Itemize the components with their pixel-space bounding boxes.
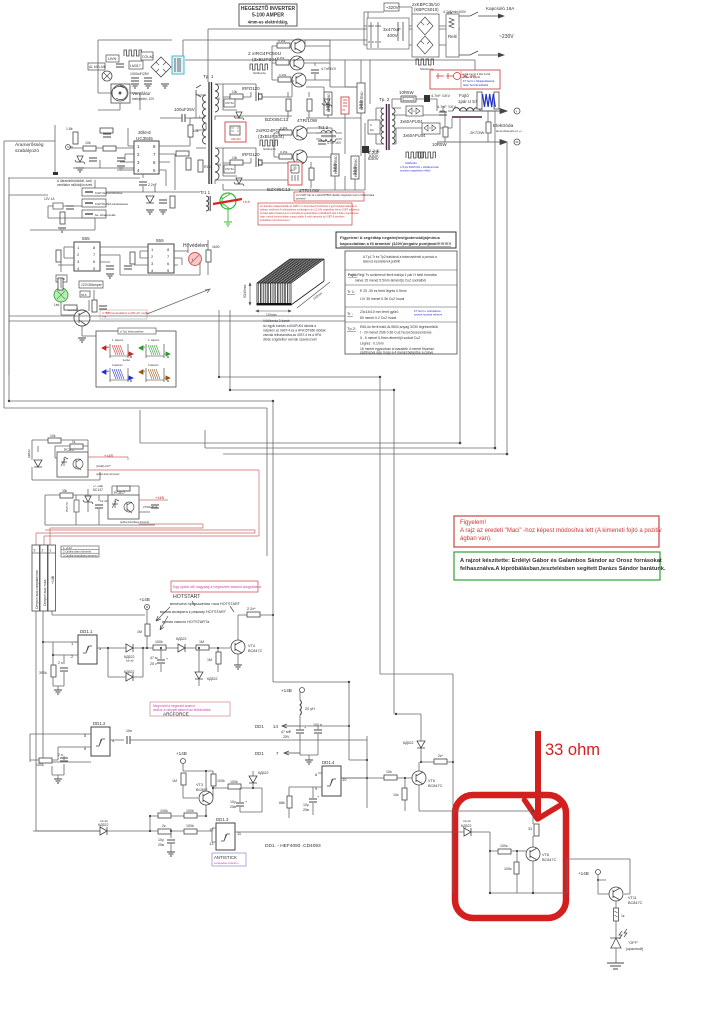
ARCFORCE pink label bbox=[150, 702, 230, 717]
waveform box bbox=[96, 328, 176, 387]
IRFD120 upper bbox=[242, 86, 263, 101]
winding diagram red bbox=[102, 338, 133, 362]
svg-text:25в: 25в bbox=[158, 843, 164, 847]
DD1 14 arrow bbox=[255, 724, 300, 729]
1M resistor h bbox=[196, 640, 209, 650]
svg-text:II - 6 menet 5.5mm átmérőj: II - 6 menet 5.5mm átmérőjű sodrat CuZ bbox=[360, 336, 420, 340]
winding info table bbox=[345, 251, 457, 355]
100k resistor bbox=[153, 640, 166, 650]
10k vert resistor vt6 bbox=[393, 778, 407, 811]
svg-text:1М: 1М bbox=[172, 779, 177, 783]
resistor 10k lower bbox=[230, 160, 243, 165]
svg-text:HFA15TB60: HFA15TB60 bbox=[327, 93, 331, 112]
cap 4.7nF tr12 bbox=[318, 141, 326, 144]
transistor Q-mid1 bbox=[293, 126, 307, 140]
svg-text:BZX85C13: BZX85C13 bbox=[265, 117, 289, 123]
svg-text:10k: 10k bbox=[386, 770, 392, 774]
output plus wire bbox=[482, 109, 500, 117]
svg-text:ágban van).: ágban van). bbox=[460, 536, 492, 542]
svg-text:TR: TR bbox=[342, 109, 345, 112]
svg-text:1pár U 57: 1pár U 57 bbox=[458, 99, 478, 104]
big red text box bbox=[258, 203, 359, 225]
svg-text:Fojtó:Régi Tv sorkimenő ferrit: Fojtó:Régi Tv sorkimenő ferrit trafója 1… bbox=[348, 273, 437, 277]
diodes 3x60APU04 row2 bbox=[422, 123, 440, 134]
aux supply wires bbox=[98, 7, 475, 82]
DD1.2 bbox=[84, 721, 124, 756]
resistor 33 bbox=[528, 824, 539, 836]
svg-text:68k: 68k bbox=[279, 801, 285, 805]
coil tr11 bbox=[206, 196, 209, 211]
svg-text:be- kikapcsolás: be- kikapcsolás bbox=[95, 213, 116, 217]
svg-text:VT6: VT6 bbox=[428, 779, 435, 783]
svg-text:mini all: mini all bbox=[463, 820, 471, 823]
svg-text:2: 2 bbox=[42, 549, 44, 553]
svg-text:VT4: VT4 bbox=[248, 644, 255, 648]
svg-text:"OFF": "OFF" bbox=[628, 941, 639, 945]
svg-text:10у: 10у bbox=[230, 800, 236, 804]
DD1 7 arrow bbox=[255, 751, 300, 756]
diode KD522 c lower bbox=[124, 670, 135, 681]
opto2 wires bbox=[45, 486, 155, 525]
zener KC147 bbox=[83, 484, 103, 504]
resistor 10R5W top bbox=[399, 90, 416, 102]
svg-text:33 ohm: 33 ohm bbox=[545, 741, 600, 759]
primary side winding box bbox=[368, 120, 380, 134]
wire h377 staircase bbox=[219, 376, 380, 378]
svg-text:10k: 10k bbox=[50, 434, 56, 438]
svg-text:+/- stab: +/- stab bbox=[93, 484, 103, 488]
relay box bbox=[446, 14, 459, 57]
wires upper stage to output caps bbox=[306, 60, 361, 118]
svg-text:2к*: 2к* bbox=[438, 754, 444, 758]
thin red note strip bbox=[294, 192, 375, 201]
wire h390 bbox=[230, 389, 394, 391]
diodes 3x60APU04 row1 bbox=[406, 106, 423, 116]
svg-text:Tr :: Tr : bbox=[347, 311, 353, 316]
100k h row y816 bbox=[158, 809, 171, 818]
svg-text:Légrés : 0.1mm: Légrés : 0.1mm bbox=[360, 342, 384, 346]
resistor 1k opto2 bbox=[117, 486, 130, 491]
wires 555 area bbox=[58, 240, 208, 275]
svg-text:KIHT=kiküszöbölése: KIHT=kiküszöbölése bbox=[95, 191, 123, 195]
wire h451 bbox=[205, 447, 495, 449]
resistor chain bbox=[83, 146, 96, 151]
svg-text:1: 1 bbox=[50, 549, 52, 553]
Fojto blue choke bbox=[458, 92, 499, 109]
svg-text:Relé: Relé bbox=[448, 34, 458, 39]
svg-text:2к: 2к bbox=[162, 824, 166, 828]
svg-text:III: III bbox=[218, 163, 221, 167]
green marker circle with red strike bbox=[213, 193, 251, 226]
wire v394 bbox=[393, 390, 395, 714]
svg-text:rakva 15 menet 5.5mm átmérő: rakva 15 menet 5.5mm átmérőjű CuZ sodrat… bbox=[355, 279, 426, 283]
svg-text:szabályozó: szabályozó bbox=[15, 148, 39, 154]
diode KD522 vert bbox=[195, 648, 218, 686]
svg-text:4.7BB humérsékhez a 20/1 AC mó: 4.7BB humérsékhez a 20/1 AC módja bbox=[102, 311, 149, 315]
svg-text:vannak felhasználva,az IGBT-4: vannak felhasználva,az IGBT-4 és a HFA bbox=[263, 333, 322, 337]
left 12V35A section bbox=[56, 275, 103, 297]
svg-text:KIHTÖLTÉS késleltetése: KIHTÖLTÉS késleltetése bbox=[95, 201, 128, 206]
lightning marks bbox=[619, 929, 627, 939]
svg-text:КД522: КД522 bbox=[258, 771, 269, 775]
cap 4.7nF1KV top bbox=[311, 70, 319, 73]
wire h444 bbox=[140, 442, 460, 444]
555 timer 2 bbox=[148, 238, 174, 273]
opto green circle bbox=[54, 288, 68, 307]
svg-text:HFD120: HFD120 bbox=[231, 137, 241, 141]
block 4 small option boxes bbox=[57, 179, 128, 218]
svg-text:Kapcsoló 16A: Kapcsoló 16A bbox=[486, 6, 515, 11]
wire v219 bbox=[4, 141, 219, 408]
svg-text:4mm-es elektródáig,: 4mm-es elektródáig, bbox=[248, 20, 289, 25]
svg-text:4.7nF1KV: 4.7nF1KV bbox=[327, 141, 342, 145]
wires under uc3845 bbox=[95, 180, 200, 192]
wire h462 bbox=[223, 453, 507, 455]
svg-text:555: 555 bbox=[82, 236, 90, 241]
svg-text:2.2nF: 2.2nF bbox=[148, 183, 157, 187]
svg-text:25в: 25в bbox=[230, 805, 236, 809]
svg-text:t.b.é.: t.b.é. bbox=[243, 200, 251, 204]
resistor 2K7/3W bbox=[470, 122, 491, 135]
transistor Q-top2 bbox=[290, 56, 304, 70]
diode KD522 opto1 bbox=[27, 449, 42, 467]
68k resistor bbox=[279, 787, 318, 818]
DD1.4 bbox=[315, 760, 384, 796]
svg-text:COLAC: COLAC bbox=[142, 55, 155, 59]
svg-text:A 2 IGBT ház át a HFA15TB60 di: A 2 IGBT ház át a HFA15TB60 diódák szige… bbox=[296, 193, 375, 197]
svg-text:DD1: DD1 bbox=[255, 751, 264, 756]
diode KD522 antistick input bbox=[98, 820, 109, 835]
svg-text:(3xBUP304): (3xBUP304) bbox=[252, 57, 279, 63]
wire h408 bbox=[4, 407, 267, 409]
svg-text:IRFD120: IRFD120 bbox=[242, 152, 260, 157]
wire v140 bbox=[139, 410, 141, 443]
svg-text:+14B: +14B bbox=[104, 454, 113, 458]
red annotation box MOC upper bbox=[225, 122, 246, 142]
winding diagram blue bbox=[102, 363, 133, 382]
svg-text:UC3845: UC3845 bbox=[136, 136, 153, 141]
junction dots bbox=[8, 376, 509, 456]
opto1 wires bbox=[32, 440, 88, 480]
svg-text:10 uF: 10 uF bbox=[100, 499, 108, 503]
cap 4.7nF1KV black bbox=[424, 94, 450, 102]
box COLAC bbox=[141, 52, 155, 60]
svg-text:50/40mm: 50/40mm bbox=[243, 284, 247, 298]
transformer Tr.2 main bbox=[379, 97, 395, 150]
transformer aux (blue highlight) bbox=[172, 56, 184, 74]
cap 100uF bbox=[116, 64, 124, 67]
svg-text:CNY6x: CNY6x bbox=[225, 167, 234, 171]
small parts bc182 bbox=[92, 300, 97, 312]
svg-text:UVN: UVN bbox=[108, 56, 117, 61]
svg-text:14: 14 bbox=[273, 724, 278, 729]
svg-text:LM317: LM317 bbox=[130, 64, 141, 68]
2n cap bbox=[58, 661, 68, 671]
ground vt11 bbox=[607, 963, 624, 969]
svg-text:Tp. 2: Tp. 2 bbox=[379, 97, 390, 102]
390k resistor bbox=[39, 665, 56, 677]
svg-text:Оптрон вых тока: Оптрон вых тока bbox=[43, 580, 47, 606]
svg-text:IGBT: IGBT bbox=[290, 170, 296, 172]
wire v494 bbox=[494, 111, 496, 448]
svg-text:II: II bbox=[218, 97, 220, 101]
svg-text:BC847C: BC847C bbox=[248, 649, 263, 653]
svg-text:DD1: DD1 bbox=[255, 724, 264, 729]
svg-text:L=6 AL 60APU04 + diódával ezek: L=6 AL 60APU04 + diódával ezek bbox=[400, 165, 439, 169]
svg-text:2. tekercs: 2. tekercs bbox=[148, 338, 160, 342]
base bus wires bbox=[272, 40, 358, 87]
diode KD522 a bbox=[124, 644, 135, 663]
30kHz UC3845 IC bbox=[134, 130, 159, 174]
lower gate stage wires bbox=[215, 148, 292, 184]
output minus wire bbox=[437, 140, 507, 145]
small box CNY lower bbox=[224, 165, 235, 173]
svg-text:ARCFORCE: ARCFORCE bbox=[163, 712, 189, 717]
svg-text:télén hozzácsatlódik: télén hozzácsatlódik bbox=[463, 83, 489, 87]
svg-text:630V: 630V bbox=[368, 156, 380, 161]
zener + diode cluster bbox=[146, 196, 154, 203]
IRFD120 lower bbox=[242, 152, 263, 167]
svg-text:3x60APU04: 3x60APU04 bbox=[403, 133, 426, 138]
cap 2.2nF bbox=[139, 182, 147, 185]
svg-text:E65-ös ferrit trafó,AL9600,any: E65-ös ferrit trafó,AL9600,anyag 3C90 lé… bbox=[360, 325, 439, 329]
HFA15TB60 box right-low bbox=[351, 156, 359, 179]
svg-text:+: + bbox=[245, 800, 247, 804]
wire h316 bbox=[9, 315, 345, 317]
svg-text:felhasználva.A kipróbálásban,t: felhasználva.A kipróbálásban,tesztelésbe… bbox=[460, 566, 666, 572]
+14B terminal bbox=[139, 597, 150, 610]
svg-text:+14В: +14В bbox=[281, 688, 292, 693]
thermistor red circle bbox=[189, 253, 202, 266]
capacitor bank 3x470uF 400V bbox=[367, 18, 409, 49]
svg-text:время возврата к режиму HOTSTA: время возврата к режиму HOTSTART bbox=[160, 610, 227, 614]
caps near uc3845 bbox=[103, 134, 111, 137]
svg-text:DD1.4: DD1.4 bbox=[322, 760, 335, 765]
svg-text:HFA15TB60: HFA15TB60 bbox=[354, 158, 358, 177]
box UVN bbox=[106, 55, 119, 62]
comb under bridge bbox=[416, 59, 434, 65]
wire redbox to vt11 bbox=[559, 859, 630, 893]
svg-text:Оптрон вых.напряжения: Оптрон вых.напряжения bbox=[35, 570, 39, 609]
svg-text:2.2x*: 2.2x* bbox=[247, 607, 256, 611]
svg-text:6m: 6m bbox=[370, 128, 375, 132]
resistor 33k opto2 bbox=[60, 493, 73, 498]
svg-text:IRFD120: IRFD120 bbox=[242, 86, 260, 91]
svg-text:í-ra: í-ra bbox=[102, 315, 107, 319]
svg-text:másikon az IGBT-4 és a HFA15TB: másikon az IGBT-4 és a HFA15TB60 diódák bbox=[263, 329, 326, 333]
zener upper bbox=[234, 112, 244, 120]
HFA15TB60 box right-top bbox=[357, 83, 365, 113]
wires vt11 bbox=[598, 880, 630, 894]
svg-text:I - 20 menet 2fdb 0.36 C: I - 20 menet 2fdb 0.36 CuZ huzal összeso… bbox=[360, 331, 432, 335]
cap 2.2uF630V black bbox=[362, 146, 380, 158]
svg-text:HFA15TB60: HFA15TB60 bbox=[360, 91, 364, 110]
caps 47uF 100n bbox=[281, 726, 307, 739]
wires dd12 to bus bbox=[30, 760, 42, 762]
small box CNY upper bbox=[224, 99, 235, 107]
svg-text:10у: 10у bbox=[158, 838, 164, 842]
red note box Figyelem bbox=[454, 516, 662, 547]
long bus wires bbox=[4, 111, 507, 811]
svg-text:szerelve szigetelten nélkül: szerelve szigetelten nélkül bbox=[400, 169, 431, 173]
svg-text:II: II bbox=[370, 123, 372, 127]
100k vert resistor vt8 bbox=[504, 862, 519, 874]
comb lower igbt bbox=[260, 140, 278, 146]
1M resistor vt3 bbox=[172, 773, 198, 798]
zener lower bbox=[234, 178, 244, 186]
svg-text:Áramerősség: Áramerősség bbox=[15, 141, 44, 148]
svg-text:КД522: КД522 bbox=[98, 823, 109, 827]
right vertical rails bbox=[223, 114, 365, 190]
inductor 20uH bbox=[300, 692, 315, 726]
DD1.3 bbox=[209, 817, 453, 850]
svg-text:(csökk) 12V*: (csökk) 12V* bbox=[96, 464, 111, 468]
svg-text:33: 33 bbox=[528, 827, 532, 831]
svg-text:DD1. - HEF4093 .CD4093: DD1. - HEF4093 .CD4093 bbox=[265, 843, 321, 849]
svg-text:+: + bbox=[166, 657, 168, 661]
wires fan bbox=[98, 56, 140, 110]
DD1.1 bbox=[71, 629, 108, 664]
strip bottom wire to +14B bbox=[52, 611, 145, 615]
svg-text:80 menet 0.2 CuZ huzal: 80 menet 0.2 CuZ huzal bbox=[360, 316, 396, 320]
svg-text:КС147: КС147 bbox=[93, 488, 103, 492]
svg-text:mini all: mini all bbox=[126, 660, 134, 663]
svg-text:100k: 100k bbox=[230, 780, 238, 784]
svg-text:12V/35Amper: 12V/35Amper bbox=[81, 283, 103, 287]
transistor Q-top1 bbox=[291, 39, 305, 53]
cap 10u antistick bbox=[158, 838, 175, 856]
svg-text:+14B: +14B bbox=[155, 496, 164, 500]
svg-text:HEGESZTÕ INVERTER: HEGESZTÕ INVERTER bbox=[241, 5, 296, 12]
svg-text:2K7/3W: 2K7/3W bbox=[470, 130, 484, 135]
transistor VT4 bbox=[230, 615, 263, 669]
100k h resistor vt8 bbox=[498, 844, 511, 854]
base resistors lower bbox=[279, 130, 292, 135]
upper gate stage wires bbox=[215, 81, 294, 120]
cap 2.2uF 630V left bbox=[368, 150, 380, 161]
title box bbox=[239, 4, 297, 26]
svg-text:BC847C: BC847C bbox=[542, 858, 557, 862]
svg-text:1к: 1к bbox=[621, 914, 625, 918]
svg-text:dióde szigetelten vannak csava: dióde szigetelten vannak csavarozva!! bbox=[263, 338, 317, 342]
optocoupler 2 PC817 bbox=[108, 491, 139, 519]
svg-text:1.8k: 1.8k bbox=[66, 127, 73, 131]
svg-text:1k: 1k bbox=[72, 440, 76, 444]
svg-text:Tr1 1: Tr1 1 bbox=[200, 190, 211, 195]
red annotation small bbox=[100, 310, 149, 319]
svg-text:КД522: КД522 bbox=[461, 824, 472, 828]
wire v453 long bbox=[452, 674, 454, 811]
cap 2700mF bbox=[143, 505, 159, 509]
svg-text:100к: 100к bbox=[504, 867, 512, 871]
svg-text:kezdet: kezdet bbox=[123, 359, 130, 362]
svg-text:Tp.2:: Tp.2: bbox=[347, 326, 356, 331]
diode KD522 vt6 bbox=[396, 714, 425, 762]
transistor VT11 bbox=[598, 880, 643, 908]
svg-text:КД522: КД522 bbox=[207, 677, 218, 681]
svg-text:47 м: 47 м bbox=[150, 656, 158, 660]
svg-text:10к: 10к bbox=[393, 793, 399, 797]
svg-text:2.2uF: 2.2uF bbox=[368, 150, 380, 155]
svg-text:optika feszültség kimenet: optika feszültség kimenet bbox=[120, 520, 149, 524]
heatsink caption bbox=[263, 319, 326, 342]
svg-text:BC847C: BC847C bbox=[428, 784, 443, 788]
cap 4.7nF 2 bbox=[439, 112, 447, 115]
svg-text:VT8: VT8 bbox=[542, 853, 549, 857]
svg-text:100uF25V: 100uF25V bbox=[174, 107, 195, 112]
transistor VT8 bbox=[526, 847, 557, 862]
resistor pot opto2 bbox=[65, 500, 79, 512]
svg-text:3.Optika feszültség kimenet: 3.Optika feszültség kimenet bbox=[63, 553, 98, 557]
svg-text:1М: 1М bbox=[137, 630, 142, 634]
svg-text:10н: 10н bbox=[126, 729, 132, 733]
svg-text:30kHz: 30kHz bbox=[138, 130, 152, 135]
wires uc3845 right bbox=[117, 118, 190, 190]
svg-text:4.7uF/min400V: 4.7uF/min400V bbox=[443, 10, 467, 14]
10k h resistor vt6 bbox=[384, 770, 405, 780]
svg-text:Tp. 1: Tp. 1 bbox=[203, 74, 214, 79]
mains switch + arrows bbox=[459, 12, 498, 55]
resistor 1M vert bbox=[137, 624, 150, 636]
svg-text:(красный): (красный) bbox=[626, 947, 644, 951]
10n cap bbox=[126, 729, 367, 744]
svg-text:1. tekercs: 1. tekercs bbox=[112, 338, 124, 342]
svg-text:5-100 AMPER: 5-100 AMPER bbox=[252, 13, 284, 19]
HFA15TB60 box mid-top bbox=[324, 92, 332, 115]
green note box bbox=[454, 552, 666, 580]
HOTSTART pink label box bbox=[171, 581, 261, 592]
svg-text:КД522: КД522 bbox=[27, 449, 31, 458]
svg-text:Letapadás védelem: Letapadás védelem bbox=[214, 861, 239, 865]
small red box TR bbox=[341, 97, 349, 114]
svg-text:25V: 25V bbox=[283, 735, 290, 739]
svg-text:555: 555 bbox=[156, 238, 164, 243]
transistor BC182 bbox=[68, 308, 90, 326]
svg-text:DD1.2: DD1.2 bbox=[93, 721, 106, 726]
svg-text:A Tp1,Tr és Tp2 trafóknál a te: A Tp1,Tr és Tp2 trafóknál a tekercseléné… bbox=[363, 255, 437, 259]
transistor Q-top3 bbox=[292, 73, 306, 87]
svg-text:33k: 33k bbox=[62, 489, 68, 493]
svg-text:1000uF/25V: 1000uF/25V bbox=[130, 72, 150, 76]
svg-text:HFA15TB60: HFA15TB60 bbox=[334, 155, 338, 174]
svg-text:100k: 100k bbox=[155, 640, 163, 644]
resistor 1k bbox=[73, 132, 78, 144]
diode KD522 vt3 bbox=[249, 771, 269, 783]
+14B filter top bbox=[281, 688, 305, 694]
svg-text:10у: 10у bbox=[303, 803, 309, 807]
resistor 10k opto1 bbox=[48, 438, 61, 443]
svg-text:Fojtó: Fojtó bbox=[459, 93, 469, 98]
red rounded highlight box bbox=[455, 795, 566, 918]
bridge rectifier aux bbox=[151, 57, 171, 77]
heatsink 3D bbox=[257, 259, 325, 305]
HFA15TB60 box mid-low bbox=[331, 154, 339, 176]
junction dots arcforce bbox=[149, 770, 454, 833]
svg-text:mini all: mini all bbox=[100, 820, 108, 823]
svg-text:(KBPC5010): (KBPC5010) bbox=[414, 7, 439, 12]
zener sym upper bbox=[322, 99, 332, 107]
svg-text:VT11: VT11 bbox=[628, 896, 637, 900]
svg-text:КД522: КД522 bbox=[124, 655, 135, 659]
bold note box bbox=[336, 232, 456, 248]
svg-text:~230V: ~230V bbox=[499, 34, 514, 40]
svg-text:0.15k: 0.15k bbox=[279, 73, 287, 77]
svg-text:величина превышения тока HOTST: величина превышения тока HOTSTART bbox=[170, 602, 241, 606]
+14B vt11 bbox=[578, 870, 601, 882]
1M resistor vert vt4 bbox=[207, 648, 221, 672]
svg-text:4.tekercs: 4.tekercs bbox=[148, 363, 159, 367]
comb upper igbt bbox=[250, 64, 268, 70]
